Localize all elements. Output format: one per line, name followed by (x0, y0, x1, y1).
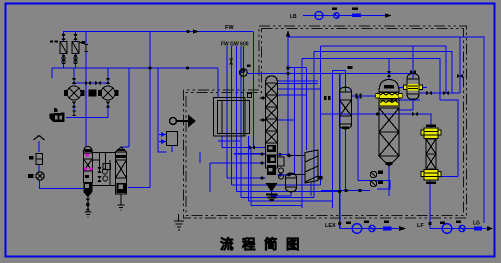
flow element FE2 (383, 227, 392, 231)
pump P1 (50, 108, 65, 123)
filter F1 (60, 40, 67, 56)
arrow bottom1 (399, 226, 406, 231)
bottom pump train 1 (325, 221, 406, 234)
label 25 comb (324, 96, 327, 100)
interconnect piping A-B (92, 153, 115, 186)
pump PT2 (352, 224, 362, 234)
column A cone (84, 192, 93, 198)
valve V-mid2 (95, 81, 101, 85)
column A bottom block (84, 183, 93, 193)
svg-text:FW: FW (225, 25, 234, 31)
drum V2 yellow band (404, 84, 423, 91)
node magenta band A1 (85, 153, 89, 156)
valve V-AB1 (97, 167, 101, 173)
wire main header y68 (52, 67, 307, 70)
wire V3 bottom (290, 191, 292, 196)
wire nested header y37 (288, 37, 484, 223)
valve V-AB2 (97, 176, 101, 182)
agitator M1 (170, 115, 197, 128)
valve RH2 (443, 91, 449, 95)
fitting rings F2b (74, 57, 77, 64)
wire long vertical x129 (121, 68, 129, 147)
E3 bottom nub (318, 176, 323, 180)
arrow top (385, 13, 392, 18)
furnace box inner (218, 101, 250, 134)
wire C3 bottom to LF train (429, 180, 431, 229)
drum V2 shell (407, 74, 419, 100)
wire pump suction y117 (66, 117, 108, 119)
valve V-mid1 (85, 81, 91, 85)
wire top FW header y31.5 (64, 32, 254, 43)
wire filter drops (64, 32, 76, 69)
pump PT1 (315, 12, 323, 20)
wire top train line (303, 15, 385, 17)
valve V-F1 (61, 34, 65, 40)
column C3 shell (426, 139, 436, 169)
fitting rings F1b (62, 57, 65, 64)
valve ticks pair (356, 94, 362, 99)
wire nested header y68 (248, 71, 413, 74)
reactor R1 shell (379, 80, 399, 167)
column A top cap (85, 149, 92, 152)
check valve CV3 (459, 225, 465, 231)
valve RH7 (387, 71, 391, 77)
wire center risers (288, 32, 340, 229)
valve RH5 (412, 112, 418, 116)
wire vertical x158 loop (158, 68, 167, 152)
svg-text:流程简图: 流程简图 (220, 236, 308, 252)
rotameter FI (30, 154, 43, 165)
wire feed drops through furnace box (227, 32, 254, 198)
wire bottom train 2 (430, 228, 488, 230)
injection box (167, 132, 178, 146)
svg-text:LB: LB (290, 14, 297, 20)
valve I-mark pump discharge (72, 111, 76, 116)
MAIN BLUE PIPING (39, 16, 488, 229)
wire exchanger risers (74, 68, 108, 118)
wire V2 bottom (412, 98, 414, 110)
valve V-A1 (86, 199, 90, 205)
steam trap TR1 (102, 169, 108, 181)
reactor R1 top cap (384, 85, 394, 89)
label 600 left (50, 40, 53, 42)
top pump train (290, 8, 392, 21)
wire E3 bottom (310, 183, 312, 196)
pump PT3 (442, 224, 452, 234)
column T1 skirt (266, 195, 278, 201)
column B shell (116, 147, 127, 194)
valve circles VM pair (370, 171, 382, 187)
tiny labels (440, 222, 445, 225)
wire below furnace (218, 136, 240, 148)
column B drain (118, 194, 125, 210)
column A shell (84, 147, 93, 183)
column T2 shell (340, 87, 352, 129)
wire R1 bottom (388, 166, 390, 196)
wire nested header y50.5 (314, 52, 452, 94)
flow element FE1 (352, 14, 361, 17)
wire nested header y44 (321, 46, 447, 93)
wire nested header y74 V2 (412, 46, 414, 79)
svg-text:LG: LG (473, 221, 480, 227)
ion exchanger C2 (99, 86, 119, 100)
arrow bottom2 (487, 226, 493, 231)
drum V3 (286, 173, 297, 192)
flow element FE3 (474, 227, 482, 231)
column A bottom stub (87, 198, 89, 213)
compressor K1 spiral (240, 69, 248, 77)
wire feed staircase to right (227, 178, 340, 198)
valve RH1 (426, 91, 432, 95)
exchanger E3 slanted (305, 150, 318, 183)
check valve CV1 (334, 13, 340, 19)
wire bottom manifold (272, 192, 292, 196)
T1 nozzle dots (260, 96, 281, 176)
F2 side connection (79, 42, 85, 44)
valve V-F2 (73, 34, 77, 40)
valve I-mark x86 (84, 45, 88, 52)
wire T1 right outlets (278, 81, 321, 120)
E3 inlet tees (287, 154, 291, 177)
valve T1 feed (249, 145, 255, 149)
drain hatch bottom left (174, 214, 184, 230)
blower B1 (29, 172, 45, 180)
valve V-C1b (72, 102, 76, 108)
wire R1 feed (388, 59, 390, 79)
valve V-C1t (72, 78, 76, 84)
wire long vertical x150 (149, 32, 151, 188)
node magenta band A2 (84, 168, 93, 171)
column B bottom block (117, 183, 127, 193)
svg-text:LF: LF (417, 223, 424, 229)
column T1 shell (266, 76, 278, 168)
column C3 bottom flange yellow (421, 170, 441, 183)
valve V2 top (410, 70, 416, 74)
column T1 reboiler (278, 157, 285, 179)
valve RH6 (391, 98, 397, 102)
label GW right (348, 66, 353, 69)
reactor R1 yellow coils (376, 93, 402, 107)
column A internals (85, 175, 89, 178)
wire x86 drop to column A (85, 32, 87, 148)
wire bottom train 1 (340, 228, 400, 230)
furnace stub (248, 94, 252, 98)
wire column B bottom to riser (128, 187, 150, 189)
valve I-mark feed (229, 59, 233, 64)
valve RH3 (457, 74, 463, 78)
R1 nozzle dots (376, 95, 379, 116)
filter F2 (72, 40, 79, 56)
svg-text:LEX: LEX (325, 223, 336, 229)
injection arrows (161, 132, 166, 144)
valve V-A2 (86, 205, 90, 211)
arrow vent x288 (286, 31, 290, 37)
tiny labels (332, 8, 337, 11)
column C3 top flange yellow (421, 126, 441, 139)
wire blower line left (39, 141, 84, 189)
wire T1 feed lines (200, 148, 266, 193)
svg-text:FW GW 600: FW GW 600 (221, 42, 249, 48)
wire injection arrows (159, 135, 167, 142)
wire nested header y56.5 (302, 59, 440, 101)
bottom pump train 2 (417, 221, 493, 234)
node label 65 between exchangers (89, 90, 97, 97)
vent cap (34, 136, 45, 141)
wire T2 feed (345, 71, 347, 93)
check valve CV2 (369, 225, 375, 231)
ion exchanger C1 (65, 86, 85, 100)
label arrow on header (193, 30, 199, 34)
furnace box outer (214, 98, 246, 137)
wire right cross headers (420, 93, 460, 177)
drain mark A (85, 212, 92, 217)
battery limit dashed black boundary (184, 26, 467, 218)
wire T2 bottom (345, 129, 347, 191)
valve V-C2b (106, 102, 110, 108)
valve V-C2t (106, 78, 110, 84)
tiny labels (346, 222, 351, 225)
column T1 lower bands (266, 145, 278, 192)
